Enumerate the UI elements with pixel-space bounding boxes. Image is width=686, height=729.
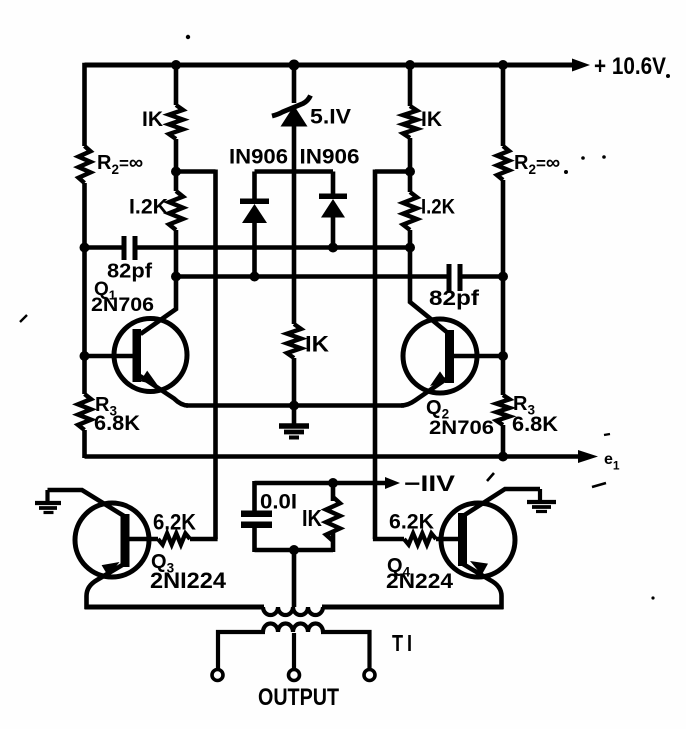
transistor Q2 emitter: [401, 377, 449, 406]
svg-text:I.2K: I.2K: [421, 196, 455, 219]
wire bottom emitter line left: [85, 605, 265, 610]
node junction x176 y277: [171, 272, 181, 282]
transistor Q1 base bar: [133, 329, 142, 382]
wire x375 rail corner to 6.2K: [373, 537, 404, 542]
wire diode top connector: [255, 169, 334, 174]
wire left inner rail mid: [174, 139, 179, 191]
wire right diode branch bottom: [331, 216, 336, 248]
ground Q4 stub: [538, 489, 542, 501]
power arrow -11V: [385, 477, 400, 489]
wire secondary right lead: [321, 632, 370, 669]
ground Q3 symbol: [35, 501, 61, 505]
capacitor 82pf right plate 2: [458, 264, 463, 291]
svg-text:6.8K: 6.8K: [94, 412, 140, 435]
wire center rail top to zener: [292, 65, 297, 103]
node junction x176 y172: [171, 167, 181, 177]
transistor Q2 emitter arrow: [430, 371, 447, 386]
node junction left rail 82pf line: [80, 243, 90, 253]
diode 1N906 left triangle: [242, 204, 267, 223]
diode 1N906 right triangle: [321, 199, 345, 218]
wire top +10.6V supply rail: [85, 63, 576, 68]
wire right outer rail lower: [501, 425, 506, 458]
svg-text:TI: TI: [392, 630, 416, 656]
speck: [651, 596, 654, 599]
capacitor 82pf left plate 1: [122, 236, 127, 260]
wire 0.01 capacitor bottom lead: [252, 528, 257, 553]
wire left outer rail middle: [82, 183, 87, 394]
svg-text:IK: IK: [305, 332, 329, 357]
ground Q3 stub: [45, 490, 49, 502]
wire cross-coupling vertical x375 to Q4: [373, 170, 378, 540]
transistor Q3 2N1224 circle: [75, 503, 149, 577]
transistor Q1 emitter: [140, 376, 188, 406]
wire left outer rail lower: [82, 430, 87, 458]
wire left inner rail to Q1 collector: [141, 230, 177, 334]
wire secondary left lead: [218, 632, 265, 669]
node junction right rail Q2 base: [498, 351, 508, 361]
wire left diode branch bottom: [252, 222, 257, 277]
capacitor 82pf right plate 1: [447, 264, 452, 291]
wire lower coupling line right segment: [463, 274, 504, 279]
node junction x333 y248: [328, 243, 338, 253]
svg-text:IK: IK: [142, 108, 163, 131]
wire Q3 base lead: [127, 537, 158, 542]
resistor 1.2K right: [403, 192, 417, 230]
svg-text:R2=∞: R2=∞: [514, 152, 560, 177]
svg-text:IN906: IN906: [229, 146, 288, 169]
ground Q4 symbol: [527, 500, 556, 504]
svg-text:IN906: IN906: [300, 146, 360, 169]
wire e1 output bus: [85, 454, 581, 459]
node junction x410 y172: [405, 167, 415, 177]
wire -11V line: [255, 481, 389, 486]
transistor Q2 base bar: [445, 330, 454, 383]
node junction top rail x410: [405, 60, 415, 70]
resistor 1K damper: [326, 497, 340, 541]
zener diode 5.1V bar: [272, 96, 311, 117]
transistor Q4 emitter: [463, 564, 502, 609]
wire center rail zener to cross: [292, 125, 297, 324]
svg-text:IK: IK: [421, 108, 442, 131]
transformer T1 secondary winding: [263, 624, 323, 633]
capacitor 0.01 plate 2: [241, 522, 272, 529]
svg-text:I.2K: I.2K: [129, 196, 168, 219]
node junction x294 y550: [289, 545, 299, 555]
transistor Q4 collector: [463, 489, 540, 516]
wire left inner rail top: [174, 65, 179, 105]
svg-text:5.IV: 5.IV: [310, 106, 351, 129]
svg-text:6.2K: 6.2K: [389, 510, 434, 534]
capacitor 82pf left plate 2: [133, 236, 138, 260]
transistor Q3 emitter: [87, 564, 125, 609]
speck: [602, 155, 606, 159]
transistor Q4 2N224 circle: [441, 503, 515, 577]
speck: [592, 483, 606, 487]
wire right outer rail upper: [501, 63, 506, 146]
resistor 1K right: [403, 106, 417, 138]
zener diode 5.1V triangle: [281, 106, 308, 127]
capacitor 0.01 plate 1: [241, 511, 272, 518]
wire 82pf upper coupling line left segment: [85, 245, 123, 250]
transistor Q1 2N706 circle: [114, 319, 187, 392]
wire right diode branch top: [331, 172, 336, 196]
svg-text:−IIV: −IIV: [404, 471, 455, 496]
svg-text:6.8K: 6.8K: [512, 413, 558, 436]
terminal center output: [289, 670, 300, 681]
node junction top rail x176: [171, 60, 181, 70]
output arrow e1: [578, 450, 598, 463]
transistor Q1 emitter arrow: [140, 371, 157, 385]
svg-text:OUTPUT: OUTPUT: [258, 684, 339, 711]
diode 1N906 left bar: [240, 199, 269, 205]
speck: [581, 156, 585, 160]
wire right inner rail mid: [408, 138, 413, 192]
speck: [564, 170, 568, 174]
wire RC bottom tie: [255, 548, 334, 553]
resistor 1.2K left: [169, 191, 183, 230]
speck: [20, 315, 27, 322]
wire lower coupling line left segment: [176, 274, 447, 279]
wire cross-coupling branch right: [375, 169, 410, 174]
diode 1N906 right bar: [319, 194, 347, 200]
svg-text:2N706: 2N706: [91, 295, 154, 316]
transistor Q4 base bar: [458, 513, 467, 566]
wire left outer rail upper: [82, 63, 87, 146]
resistor 6.2K left: [158, 534, 190, 545]
resistor R3 right 6.8K: [497, 395, 510, 425]
node junction top rail x503: [498, 60, 508, 70]
wire 1K damper top lead: [331, 483, 336, 501]
node junction x503 y456: [498, 452, 508, 462]
wire Q2 base: [452, 354, 503, 359]
wire 0.01 capacitor top lead: [252, 481, 257, 511]
wire emitter bus: [186, 403, 404, 408]
resistor 1K left: [169, 105, 183, 139]
transistor Q3 collector: [48, 490, 125, 516]
resistor 1K center: [287, 324, 301, 358]
terminal right output: [364, 670, 375, 681]
transistor Q3 base bar: [121, 514, 130, 567]
speck: [186, 35, 190, 39]
wire right outer rail middle: [501, 180, 506, 395]
resistor R3 left 6.8K: [78, 394, 91, 430]
transistor Q3 emitter arrow PNP: [102, 562, 120, 576]
node junction x254 y277: [250, 272, 260, 282]
wire 82pf upper coupling line right segment: [138, 245, 411, 250]
node junction top rail x294: [289, 60, 300, 71]
wire center rail to emitter bus: [292, 358, 297, 424]
speck: [487, 473, 494, 481]
resistor R2 right infinite: [497, 146, 509, 180]
svg-text:0.0I: 0.0I: [260, 491, 297, 514]
node junction x333 y483: [328, 478, 338, 488]
power arrow +10.6V: [572, 59, 590, 72]
svg-text:+ 10.6V: + 10.6V: [594, 53, 666, 80]
svg-text:82pf: 82pf: [107, 261, 152, 283]
terminal left output: [212, 670, 223, 681]
node junction x503 y277: [498, 272, 508, 282]
svg-text:6.2K: 6.2K: [153, 510, 196, 535]
resistor R2 left infinite: [79, 146, 91, 183]
transformer T1 primary winding: [263, 607, 323, 615]
wire secondary center tap: [292, 633, 296, 669]
wire cross-coupling branch left: [176, 169, 216, 174]
speck: [604, 434, 610, 435]
node junction x410 y248: [405, 243, 415, 253]
node junction left rail Q1 base: [80, 351, 90, 361]
wire 6.2K to x215 rail: [190, 537, 218, 542]
svg-text:R2=∞: R2=∞: [97, 152, 143, 177]
wire left diode branch top: [252, 172, 257, 201]
wire 6.2K to Q4 base: [436, 537, 461, 542]
svg-text:2NI224: 2NI224: [150, 568, 227, 593]
wire bottom emitter line right: [322, 605, 504, 610]
svg-text:IK: IK: [302, 505, 322, 531]
transistor Q4 emitter arrow PNP: [470, 561, 488, 575]
node junction x294 y405 emitter bus: [289, 401, 299, 411]
svg-text:82pf: 82pf: [429, 287, 480, 310]
wire right inner rail to Q2 collector: [410, 230, 448, 333]
ground center symbol: [279, 423, 309, 429]
svg-text:2N706: 2N706: [429, 418, 494, 439]
wire center tap feed: [292, 550, 297, 607]
resistor 6.2K right: [404, 534, 436, 545]
wire Q1 base: [85, 354, 135, 359]
svg-text:2N224: 2N224: [386, 570, 453, 593]
transistor Q2 2N706 circle: [403, 319, 477, 393]
wire right inner rail top: [408, 65, 413, 106]
svg-text:e1: e1: [604, 451, 620, 473]
wire 1K damper bottom lead: [331, 533, 336, 552]
wire cross-coupling vertical x215 to Q3: [213, 170, 218, 540]
